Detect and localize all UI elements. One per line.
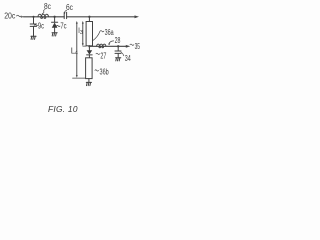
ground below 9c [31,36,36,39]
varactor diode 7c [52,17,58,33]
diode 27 [87,46,93,58]
inductor 8c [38,14,49,18]
label 27 with leader [96,51,107,60]
svg-text:28: 28 [115,36,121,45]
capacitor 34 [115,46,121,57]
label 8c [42,2,51,14]
svg-text:36a: 36a [105,28,114,37]
svg-text:20c: 20c [4,12,15,21]
wire top line right of capacitor 6c [67,16,136,18]
node junction dot B [53,16,55,18]
arrowhead at right end of top wire [135,15,140,18]
stripline resonator 36b [86,58,93,79]
label 7c [57,22,67,31]
ground below 7c [52,33,57,36]
output arrow 35 [126,42,141,51]
label 6c [65,3,73,14]
svg-text:6c: 6c [66,3,73,12]
svg-text:27: 27 [100,51,106,60]
svg-text:35: 35 [135,42,141,51]
stripline resonator 36a [86,17,92,47]
svg-text:9c: 9c [38,21,44,30]
inductor 28 [97,44,106,48]
node junction dot D [117,45,119,47]
node 20c input label [4,12,24,21]
node junction dot A [32,16,34,18]
node junction dot E [88,45,90,47]
node junction dot C [88,16,90,18]
svg-text:7c: 7c [60,22,66,31]
label 36b with leader [95,68,109,77]
svg-text:4: 4 [75,51,78,57]
wire branch to the right [89,45,127,47]
svg-text:34: 34 [125,54,131,63]
dimension line l4 [71,21,85,78]
label 34 with leader [121,52,131,63]
capacitor 9c [30,17,36,36]
label 36a with leader [93,28,114,41]
svg-text:FIG. 10: FIG. 10 [48,104,78,114]
capacitor 6c [64,12,66,18]
dimension line l3 [78,21,86,46]
ground below 34 [116,58,121,61]
svg-text:36b: 36b [100,68,110,77]
svg-text:3: 3 [80,30,83,36]
ground below 36b [86,79,91,86]
label 9c [34,21,44,30]
wire main top line (left of capacitor 6c) [24,16,65,18]
label 28 with curved leader [108,36,121,45]
